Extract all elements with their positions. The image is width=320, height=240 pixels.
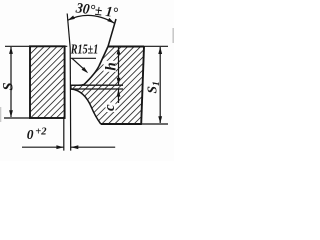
extension line c bottom / root face bottom bbox=[71, 88, 123, 90]
scan artifact right edge bbox=[172, 28, 174, 43]
svg-text:S: S bbox=[0, 82, 16, 90]
right plate top edge bbox=[108, 46, 144, 48]
groove bevel edge bbox=[99, 47, 108, 67]
bevel extension line (angle leg) bbox=[108, 19, 116, 47]
extension line top-right (S1 top) bbox=[144, 45, 168, 47]
arc arrow right bbox=[107, 18, 115, 25]
dimension S1 line bbox=[159, 47, 161, 123]
arc arrow left bbox=[67, 15, 75, 22]
extension line top-left (S top) bbox=[5, 45, 67, 47]
extension line bottom-left (S bottom) bbox=[4, 117, 30, 119]
dimension c line (arrow outside, below) bbox=[118, 89, 120, 103]
S1 arrow up bbox=[158, 47, 162, 54]
label R15+-1 bbox=[71, 43, 99, 55]
gap dimension line right segment bbox=[71, 146, 115, 148]
S1 arrow down bbox=[158, 116, 162, 123]
vertical axis / gap extension line bbox=[67, 14, 71, 151]
right plate body (with curved groove edge) bbox=[71, 47, 144, 125]
R15 leader shelf bbox=[71, 57, 96, 59]
gap dimension line left segment bbox=[22, 146, 63, 148]
left plate body bbox=[30, 46, 65, 118]
root face edge bbox=[70, 85, 72, 90]
right plate bottom edge bbox=[101, 123, 142, 125]
svg-text:h: h bbox=[103, 62, 119, 70]
svg-text:0: 0 bbox=[27, 127, 34, 142]
R15 leader line bbox=[72, 58, 87, 72]
gap arrow right-pointing bbox=[56, 145, 63, 149]
extension line h bottom / root face top bbox=[71, 84, 123, 86]
dimension h line bbox=[118, 48, 120, 85]
R15 leader arrow bbox=[82, 67, 90, 75]
label c bbox=[106, 103, 116, 113]
h arrow up bbox=[117, 47, 121, 54]
S arrow up bbox=[9, 47, 13, 54]
svg-text:R15±1: R15±1 bbox=[70, 43, 98, 58]
scan artifact left edge bbox=[0, 107, 1, 122]
groove radius curve (top) bbox=[71, 66, 99, 85]
right plate right edge bbox=[141, 47, 144, 125]
svg-text:c: c bbox=[102, 104, 118, 111]
c arrow up bbox=[117, 89, 121, 96]
groove curve (bottom) bbox=[71, 89, 101, 124]
label h bbox=[104, 61, 117, 72]
svg-text:+2: +2 bbox=[35, 127, 47, 138]
S arrow down bbox=[9, 110, 13, 117]
angle dimension arc bbox=[67, 15, 114, 23]
extension line bottom-right (S1 bottom) bbox=[141, 123, 168, 125]
left gap extension line bbox=[63, 118, 65, 151]
h arrow down bbox=[117, 78, 121, 85]
gap arrow left-pointing bbox=[71, 145, 78, 149]
dimension S line bbox=[10, 47, 12, 117]
